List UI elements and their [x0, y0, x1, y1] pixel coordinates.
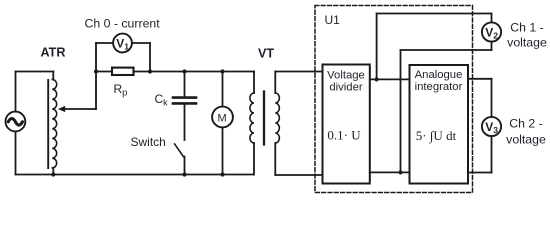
svg-text:Voltage: Voltage: [327, 70, 365, 82]
svg-text:Ch 0 - current: Ch 0 - current: [85, 17, 161, 31]
block: analogue integrator: [410, 65, 469, 184]
wire: motor branch lower: [222, 127, 224, 174]
wire: return bus down: [400, 50, 402, 172]
wire: to meter V1: [96, 42, 113, 44]
svg-text:voltage: voltage: [507, 36, 547, 50]
junction: motor top: [220, 69, 224, 73]
junction: capacitor top: [182, 69, 186, 73]
junction: switch bottom on rail: [182, 172, 186, 176]
meter V2: [482, 22, 501, 41]
wire: resistor to VT primary: [134, 71, 255, 73]
wire: common rail right of integrator: [468, 172, 492, 174]
wire: meter V1 to right leg: [132, 42, 150, 44]
wire: cap branch upper: [184, 72, 186, 97]
svg-text:5· ∫U dt: 5· ∫U dt: [416, 128, 457, 144]
wire: integrator out to V3: [468, 78, 492, 80]
wire: divider output riser: [376, 14, 378, 80]
autotransformer ATR: [48, 72, 56, 175]
wire: secondary top to divider: [275, 71, 322, 73]
wire: common rail between blocks: [370, 171, 410, 173]
motor M: [212, 107, 233, 128]
wire: top horizontal to ATR: [16, 71, 54, 73]
transformer VT core: [263, 92, 265, 145]
meter V3: [482, 117, 501, 136]
transformer VT primary: [250, 72, 254, 175]
junction: motor bottom on rail: [220, 172, 224, 176]
wire: V3 feed drop: [491, 79, 493, 117]
svg-text:Ch 2 -: Ch 2 -: [509, 117, 543, 131]
wire: V2 drop: [491, 14, 493, 23]
svg-text:ATR: ATR: [41, 46, 66, 60]
resistor Rp: [112, 68, 134, 75]
block: voltage divider: [323, 65, 370, 184]
svg-text:M: M: [218, 113, 227, 125]
wire: cap to switch: [184, 105, 186, 140]
junction: tap node: [94, 69, 98, 73]
switch S1: [175, 144, 185, 175]
svg-text:Analogue: Analogue: [415, 69, 463, 81]
junction: right of Rp: [148, 69, 152, 73]
wire: bottom rail left circuit: [16, 174, 254, 176]
svg-text:0.1· U: 0.1· U: [327, 128, 361, 143]
AC source G1: [6, 112, 26, 132]
wire: secondary bottom to divider: [275, 174, 322, 176]
wire: V3 return drop: [491, 136, 493, 172]
svg-text:VT: VT: [258, 47, 274, 61]
wire: V2 return drop: [491, 42, 493, 50]
wire: divider out to integrator in: [370, 78, 410, 80]
wire: node to resistor: [96, 71, 112, 73]
junction: divider output node: [375, 77, 379, 81]
transformer VT secondary: [275, 72, 279, 176]
svg-text:U1: U1: [325, 13, 341, 27]
wire: tap riser: [95, 72, 97, 110]
svg-text:voltage: voltage: [506, 133, 546, 147]
svg-text:Switch: Switch: [131, 135, 166, 149]
wire: source bottom to bottom rail: [15, 131, 17, 174]
ammeter loop right leg: [149, 43, 151, 72]
svg-text:divider: divider: [329, 82, 363, 94]
meter V1: [113, 34, 132, 53]
ammeter loop left leg: [95, 43, 97, 72]
wire: source top to ATR top: [15, 72, 17, 112]
svg-text:integrator: integrator: [415, 81, 463, 93]
svg-text:Ch 1 -: Ch 1 -: [510, 21, 544, 35]
capacitor Ck: [173, 98, 196, 104]
wire: motor branch upper: [222, 72, 224, 107]
wire: top feed to V2: [377, 13, 492, 15]
ATR tap arrow: [58, 106, 96, 112]
junction: ATR bottom on rail: [51, 172, 55, 176]
junction: return bus on common rail: [398, 170, 402, 174]
dashed enclosure U1: [315, 6, 473, 193]
wire: V2 return horizontal: [401, 49, 492, 51]
